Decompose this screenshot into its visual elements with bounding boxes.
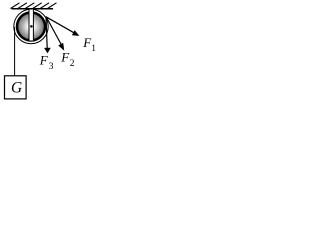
force arrow F2 line [46, 17, 62, 46]
svg-text:G: G [11, 79, 22, 96]
force arrow F1 head [72, 30, 80, 36]
force arrow F1 line [46, 17, 74, 33]
svg-text:3: 3 [49, 62, 54, 72]
pulley wheel [17, 13, 45, 41]
ceiling hatching [11, 3, 57, 9]
force arrow F2 head [58, 43, 64, 51]
pulley axle [30, 25, 33, 28]
force arrow F3 line [46, 17, 47, 49]
ceiling line [12, 8, 54, 10]
pulley outer circle [14, 9, 48, 43]
svg-text:1: 1 [91, 44, 96, 54]
svg-text:F: F [39, 52, 49, 67]
force arrow F3 head [44, 48, 51, 54]
pulley mount bar [29, 9, 33, 41]
svg-text:F: F [60, 50, 70, 65]
rope to block [14, 27, 16, 76]
svg-text:2: 2 [70, 59, 75, 69]
block G box [5, 76, 27, 99]
